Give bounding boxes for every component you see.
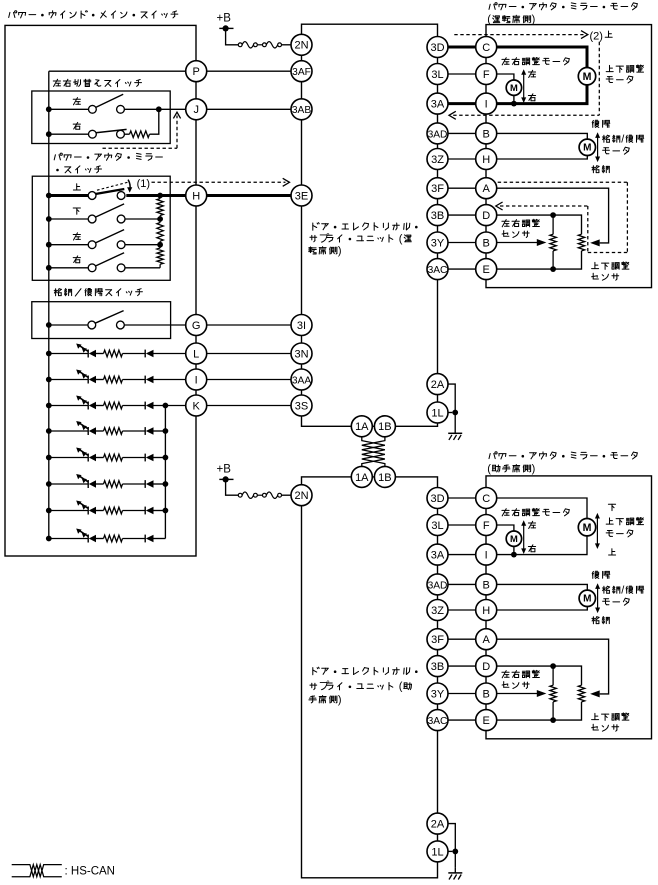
direction arrows 復帰/格納 (driver) [597, 135, 599, 159]
connector 3AD [427, 123, 448, 144]
svg-text:+B: +B [217, 464, 232, 476]
svg-text:(: ( [399, 681, 403, 693]
label: 左 (mirror row) [73, 233, 80, 240]
motor box connector B (driver) [476, 123, 497, 144]
node: bus junction LED row 1 [46, 351, 52, 357]
node: bus junction 左 row [46, 106, 52, 112]
svg-text:+B: +B [217, 13, 232, 25]
label: 上 (mirror row) [73, 184, 80, 190]
motor box connector E (driver) [476, 259, 497, 280]
svg-text:: HS-CAN: : HS-CAN [65, 866, 115, 878]
label: 格納 (passenger) [592, 617, 609, 624]
svg-text:3E: 3E [295, 190, 308, 202]
label: 左右調整 (sensor) (driver) [502, 219, 540, 227]
arrow into vertical sensor (driver) [590, 239, 600, 246]
label: 下 (mirror row) [73, 208, 80, 214]
wire: 3Y to B row (driver) [448, 242, 476, 244]
motor box connector B (passenger) [476, 683, 497, 704]
vertical adjust motor M (driver) [578, 68, 595, 85]
dashed link from (2)上 down to 3A row [598, 42, 600, 116]
resistor chain R-low [157, 248, 163, 264]
LED D4 with resistor R4 (illumination row 4) [49, 430, 88, 432]
wire: to connector [154, 353, 186, 355]
wire: I to 3AA [207, 379, 292, 381]
direction arrows 左/右 (driver) [523, 72, 525, 100]
connector 3A [427, 93, 448, 114]
svg-text:): ) [532, 14, 536, 26]
svg-text:3F: 3F [431, 634, 444, 646]
wire: 3AD to B row (driver) [448, 132, 476, 134]
label: 右 (row) [73, 122, 80, 129]
connector 3E [291, 185, 312, 206]
svg-text:3Z: 3Z [431, 605, 444, 617]
svg-text:1A: 1A [355, 421, 369, 433]
svg-text:1A: 1A [355, 472, 369, 484]
wire: 3B to D row (passenger) [448, 665, 476, 667]
label: 格納/復帰 (driver) [602, 135, 643, 142]
svg-text:H: H [192, 190, 200, 202]
wire: breaker to 2N (passenger) [281, 494, 291, 496]
svg-text:3B: 3B [431, 210, 444, 222]
motor box connector I (passenger) [476, 544, 497, 565]
connector 3L [427, 64, 448, 85]
svg-text:プ: プ [318, 680, 329, 693]
node: bus junction LED row 5 [46, 455, 52, 461]
wire: to right mini-bus [154, 510, 166, 512]
wire: 3AC to E row (driver) [448, 268, 476, 270]
node: junction at 158.8/109.3 [156, 106, 162, 112]
svg-text:E: E [483, 715, 490, 727]
svg-text:3AA: 3AA [292, 375, 311, 386]
wire: 上 row (bold, active) [49, 194, 89, 197]
LED D8 with resistor R8 (illumination row 8) [49, 538, 88, 540]
svg-text:プ: プ [318, 232, 329, 245]
wire: 3B to D row (driver) [448, 214, 476, 216]
LED D1 with resistor R1 (illumination row 1) [49, 353, 88, 355]
wire: contact to resistor chain [125, 218, 160, 220]
resistor chain R-mid [157, 223, 163, 242]
node: junction 上 row / resistor chain [157, 193, 163, 199]
node: bus junction 右 row [46, 131, 52, 137]
connector L [186, 343, 207, 364]
mirror switch box (パワー・アウタ・ミラー・スイッチ) [32, 176, 170, 280]
svg-text:A: A [483, 634, 491, 646]
svg-text:J: J [193, 104, 199, 116]
svg-text:D: D [482, 661, 490, 673]
node: junction on I row (driver) [511, 101, 517, 107]
label: 下 (passenger) [608, 504, 615, 510]
wire: B row wiper arrow (passenger) [497, 693, 538, 695]
svg-text:F: F [483, 520, 490, 532]
direction arrows 復帰/格納 (passenger) [597, 586, 599, 610]
svg-text:(: ( [487, 14, 491, 26]
connector 2A (driver) [427, 374, 448, 395]
node: bus junction 格納 row [46, 322, 52, 328]
connector 3F [427, 178, 448, 199]
circuit breaker (passenger) [238, 493, 242, 497]
connector 3AA [291, 369, 312, 390]
svg-text:3A: 3A [431, 550, 445, 562]
svg-text:): ) [338, 245, 342, 257]
motor box connector A (passenger) [476, 629, 497, 650]
label: 上下調整 (sensor) (driver) [592, 262, 629, 270]
horizontal adjust motor M (passenger) [506, 531, 521, 546]
LED D2 with resistor R2 (illumination row 2) [49, 379, 88, 381]
wire: D row to sensors top (driver) [497, 215, 582, 234]
switch SW-retract contacts [88, 321, 96, 329]
svg-text:I: I [485, 550, 488, 562]
wire: A row to vertical sensor wiper (passenger) [497, 639, 609, 694]
connector 3AB [291, 99, 312, 120]
svg-text:M: M [583, 594, 591, 605]
svg-text:2N: 2N [294, 490, 308, 502]
svg-text:3S: 3S [295, 400, 308, 412]
connector G [186, 315, 207, 336]
wire: A row to vertical sensor wiper (driver) [497, 188, 609, 243]
power outer mirror motor box (passenger) [486, 476, 652, 739]
wire: resistor to 左 row junction [150, 109, 159, 134]
LED D3 with resistor R3 (illumination row 3) [49, 405, 88, 407]
selector switch box (左右切替えスイッチ) [32, 91, 170, 144]
resistor chain R-up/down [157, 199, 163, 216]
label: 左 (passenger) [528, 521, 535, 528]
svg-text:D: D [482, 210, 490, 222]
wire: F to horizontal adjust motor (driver) [497, 74, 514, 80]
connector 3B [427, 205, 448, 226]
label: 左右切替えスイッチ [53, 79, 141, 86]
HS-CAN legend twisted pair symbol [12, 865, 62, 877]
connector 3Y [427, 232, 448, 253]
node: mini-bus junction on K row [163, 403, 169, 409]
connector 3F (passenger) [427, 629, 448, 650]
svg-text:B: B [483, 237, 490, 249]
connector H [186, 185, 207, 206]
svg-text:3Z: 3Z [431, 154, 444, 166]
connector 3I [291, 315, 312, 336]
wire: J to 3AB [207, 108, 292, 110]
label: ・スイッチ [56, 166, 101, 173]
motor box connector F (driver) [476, 64, 497, 85]
connector 3AD (passenger) [427, 574, 448, 595]
label: モータ (passenger) [603, 598, 630, 605]
connector I [186, 369, 207, 390]
wire: to connector [154, 405, 186, 407]
wire: B to retract motor (driver) [497, 133, 588, 139]
wire: motor to I row junction (passenger) [513, 546, 515, 554]
svg-text:E: E [483, 264, 490, 276]
switch lever mirror 右 (open) [95, 253, 124, 266]
label: センサ (sensor) (passenger) [502, 682, 529, 689]
retract/return motor M (passenger) [579, 590, 595, 606]
connector 3D (passenger) [427, 488, 448, 509]
door electrical supply unit box (passenger) [302, 477, 438, 878]
label: 転席側) [309, 247, 337, 255]
motor box connector B (driver) [476, 232, 497, 253]
motor box connector C (driver) [476, 37, 497, 58]
svg-text:P: P [193, 66, 200, 78]
wire: motor to I row junction (driver) [513, 95, 515, 103]
connector 3Z (passenger) [427, 600, 448, 621]
node: bus junction mirror 左 row [46, 242, 52, 248]
wire: E row to sensors bottom (driver) [497, 251, 582, 269]
label: モータ (driver) [603, 147, 630, 154]
svg-text:L: L [193, 348, 199, 360]
svg-text:(1): (1) [137, 178, 150, 190]
label: 上下調整 (passenger motor) [606, 517, 643, 525]
node: bus junction LED row 2 [46, 377, 52, 383]
switch SW-up lever (closed, bold) [95, 189, 124, 194]
switch lever mirror 下 (open) [95, 204, 124, 217]
node: junction D row / horizontal sensor (driver) [550, 212, 556, 218]
connector 2A (passenger) [427, 813, 448, 834]
connector 2N (driver) [291, 34, 312, 55]
label: 復帰 (passenger) [592, 571, 610, 578]
connector 1A (passenger) [351, 466, 372, 487]
switch SW-up contacts [88, 192, 96, 200]
dashed previous lever position [97, 182, 128, 190]
direction arrows 左/右 (passenger) [523, 523, 525, 551]
wire: 3L to F (passenger) [448, 524, 476, 526]
connector 3D [427, 37, 448, 58]
motor box connector I (driver) [476, 93, 497, 114]
node: bus junction mirror 右 row [46, 265, 52, 271]
svg-text:G: G [192, 320, 201, 332]
horizontal adjust sensor (potentiometer) (passenger) [552, 666, 554, 685]
wire: 3Y to B row (passenger) [448, 693, 476, 695]
svg-text:3I: 3I [297, 320, 306, 332]
wire: B row wiper arrow (driver) [497, 242, 538, 244]
svg-text:B: B [483, 579, 490, 591]
horizontal adjust motor M (driver) [506, 80, 521, 95]
wire: to right mini-bus [154, 457, 166, 459]
connector 3B (passenger) [427, 656, 448, 677]
motor box connector A (driver) [476, 178, 497, 199]
wire: 3D to C row (passenger) [448, 497, 476, 499]
wire: 左 row [49, 108, 89, 110]
power outer mirror motor box (driver) [486, 25, 652, 288]
label: モータ (passenger motor) [606, 530, 633, 537]
svg-text:3AD: 3AD [428, 129, 448, 140]
label: 左右調整モータ (driver) [502, 57, 569, 65]
LED D6 with resistor R6 (illumination row 6) [49, 483, 88, 485]
arrow into vertical sensor (passenger) [590, 690, 600, 697]
svg-text:3Y: 3Y [431, 688, 445, 700]
svg-text:3A: 3A [431, 99, 445, 111]
svg-text:1B: 1B [378, 472, 391, 484]
svg-text:M: M [583, 143, 591, 154]
wire: twisted pair 1A/1B [362, 437, 385, 467]
switch contacts mirror 左 [88, 241, 96, 249]
switch contacts mirror 右 [88, 264, 96, 272]
svg-text:M: M [583, 522, 592, 534]
connector 3L (passenger) [427, 515, 448, 536]
svg-text:): ) [338, 694, 342, 706]
switch SW-left contacts [89, 105, 97, 113]
wire: G to 3I [207, 324, 292, 326]
connector 3A (passenger) [427, 544, 448, 565]
wire: 3A to I row (driver) [448, 102, 476, 105]
wire: P to 3AF [207, 70, 292, 72]
label: 右 (passenger) [528, 545, 535, 552]
label: 上下調整 (driver motor) [606, 65, 643, 73]
svg-text:): ) [532, 463, 536, 475]
wire: C to vertical adjust motor (driver) [497, 47, 588, 68]
connector 1A (driver) [351, 416, 372, 437]
connector 3S [291, 395, 312, 416]
retract/return motor M (driver) [579, 139, 595, 155]
svg-text:M: M [510, 533, 518, 544]
label: 格納／復帰スイッチ [54, 289, 142, 297]
wire: H to 3E (bold) [207, 194, 292, 197]
motor box connector H (driver) [476, 149, 497, 170]
wire: to connector [154, 379, 186, 381]
wire: motor to I row (passenger) [497, 536, 588, 555]
wire: motor to H row (driver) [497, 156, 588, 160]
connector 3N [291, 343, 312, 364]
svg-text:1B: 1B [378, 421, 391, 433]
wire: contact to resistor chain [125, 267, 160, 269]
connector K [186, 395, 207, 416]
svg-text:B: B [483, 688, 490, 700]
retract/return switch box (格納／復帰スイッチ) [32, 302, 171, 339]
wire: breaker to 2N [281, 44, 291, 46]
wire: 3D to C row (driver) [448, 46, 476, 49]
dashed annotation (2)上 [454, 34, 583, 36]
node: bus junction LED row 3 [46, 403, 52, 409]
svg-text:1L: 1L [431, 407, 443, 419]
wire: mirror 右 row [49, 267, 88, 269]
wire: C to vertical adjust motor (passenger) [497, 498, 588, 519]
node: bus junction mirror 下 row [46, 216, 52, 222]
svg-text:(: ( [487, 463, 491, 475]
svg-text:M: M [510, 82, 518, 93]
wire: P row to bus corner [49, 70, 186, 72]
wire: to right mini-bus [154, 430, 166, 432]
label: パワー・アウタ・ミラー・モータ (driver) [489, 3, 637, 10]
svg-text:3AF: 3AF [292, 67, 311, 78]
wire: 3AC to E row (passenger) [448, 719, 476, 721]
node: chain junction [157, 216, 163, 222]
svg-text:3D: 3D [430, 493, 444, 505]
svg-text:(: ( [399, 233, 403, 245]
label: サプライ・ユニット (運 [310, 235, 411, 242]
label: 右 (driver) [528, 94, 535, 101]
svg-text:B: B [483, 128, 490, 140]
label: 上下調整 (sensor) (passenger) [592, 713, 629, 721]
switch SW-right contacts [89, 130, 97, 138]
svg-text:3Y: 3Y [431, 237, 445, 249]
svg-text:3D: 3D [430, 42, 444, 54]
LED D5 with resistor R5 (illumination row 5) [49, 457, 88, 459]
svg-text:H: H [482, 605, 490, 617]
svg-text:3AD: 3AD [428, 580, 448, 591]
motor box connector D (passenger) [476, 656, 497, 677]
label: サプライ・ユニット (助 [310, 683, 412, 690]
svg-text:C: C [482, 42, 490, 54]
svg-text:A: A [483, 183, 491, 195]
ground wiring (driver) [448, 384, 455, 428]
motor box connector D (driver) [476, 205, 497, 226]
label: 左右調整 (sensor) (passenger) [502, 670, 540, 678]
wire: internal supply bus from P row down [48, 71, 50, 538]
svg-text:F: F [483, 69, 490, 81]
label: センサ (sensor2) (passenger) [592, 724, 619, 731]
label: ドア・エレクトリカル・ (passenger) [313, 667, 418, 675]
wire: 格納 row [49, 324, 88, 326]
wire: contact to resistor chain [125, 244, 160, 246]
connector 1B (passenger) [374, 466, 395, 487]
wire: motor to H row (passenger) [497, 607, 588, 611]
connector 3AF [291, 61, 312, 82]
svg-text:1L: 1L [431, 846, 443, 858]
node: junction E row / horizontal sensor (passenger) [550, 717, 556, 723]
vertical adjust sensor (potentiometer) (passenger) [578, 685, 584, 702]
resistor R-selector [125, 133, 130, 135]
wire: mirror 左 row [49, 244, 88, 246]
svg-text:3AC: 3AC [428, 716, 448, 727]
label: 格納 (driver) [592, 166, 609, 173]
motor box connector F (passenger) [476, 515, 497, 536]
motor box connector B (passenger) [476, 574, 497, 595]
vertical adjust sensor (potentiometer) (driver) [578, 234, 584, 251]
wire: motor to I row (driver) [497, 85, 588, 104]
svg-text:3L: 3L [431, 69, 443, 81]
svg-text:M: M [583, 71, 592, 83]
label: パワー・アウタ・ミラー・モータ (passenger) [489, 452, 637, 459]
connector J [186, 99, 207, 120]
wire: L to 3N [207, 353, 292, 355]
switch SW-right lever (closed) [96, 129, 127, 132]
node: junction D row / horizontal sensor (passenger) [550, 663, 556, 669]
wire: 3F to A row (passenger) [448, 638, 476, 640]
label: 左 (driver) [528, 70, 535, 77]
svg-text:3AC: 3AC [428, 265, 448, 276]
power window main switch box (パワー・ウインド・メイン・スイッチ) [5, 25, 196, 556]
svg-text:3F: 3F [431, 183, 444, 195]
label: パワー・ウインド・メイン・スイッチ [9, 11, 178, 19]
svg-text:2A: 2A [431, 819, 445, 831]
actuation arrow (1) [128, 180, 130, 190]
connector P [186, 61, 207, 82]
label: センサ (sensor2) (driver) [592, 273, 619, 280]
svg-text:2N: 2N [294, 40, 308, 52]
switch SW-left lever (open) [96, 94, 124, 107]
connector 1B (driver) [374, 416, 395, 437]
wire: F to horizontal adjust motor (passenger) [497, 525, 514, 531]
svg-text:I: I [195, 374, 198, 386]
connector 1L (passenger) [427, 841, 448, 862]
wire: to right mini-bus [154, 483, 166, 485]
label: 上 (passenger) [609, 549, 616, 555]
svg-text:H: H [482, 154, 490, 166]
motor box connector H (passenger) [476, 600, 497, 621]
motor box connector C (passenger) [476, 488, 497, 509]
door electrical supply unit box (driver) [302, 24, 438, 426]
node: bus junction LED row 6 [46, 481, 52, 487]
node: junction on I row (passenger) [511, 552, 517, 558]
direction arrows 下/上 (passenger) [596, 516, 598, 547]
LED D7 with resistor R7 (illumination row 7) [49, 510, 88, 512]
label: (運転席側) [493, 15, 531, 23]
dashed annotation (1) to 3E [152, 181, 286, 183]
connector 1L (driver) [427, 402, 448, 423]
connector 3Z [427, 149, 448, 170]
svg-text:2A: 2A [431, 379, 445, 391]
label: 手席側) [309, 696, 337, 704]
wire: 3L to F (driver) [448, 73, 476, 75]
label: 左 (row) [73, 98, 80, 105]
connector 3Y (passenger) [427, 683, 448, 704]
